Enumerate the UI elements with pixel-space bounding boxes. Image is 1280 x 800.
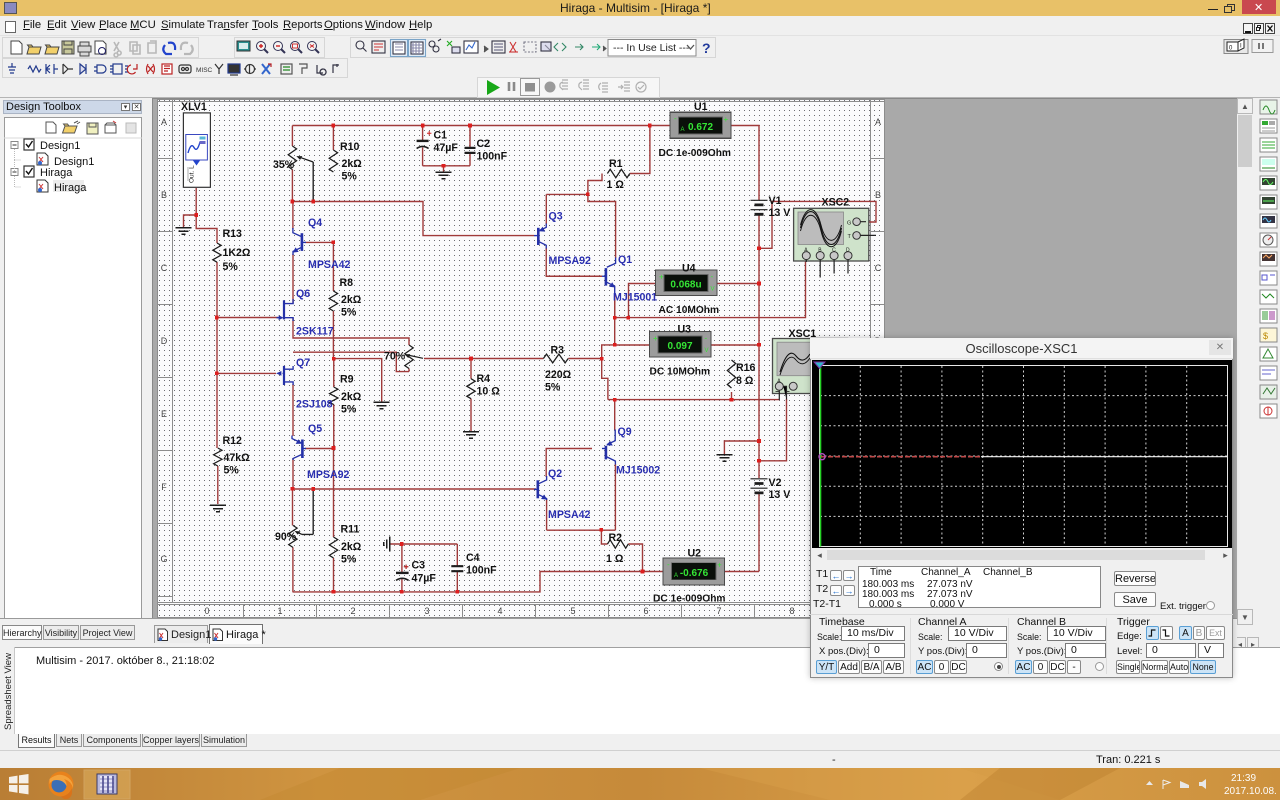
svg-text:+: + <box>724 115 729 124</box>
wire: Q6 gate <box>217 317 278 319</box>
potentiometer 70% <box>405 345 413 368</box>
wire: pot 35% wiper riser <box>312 162 314 202</box>
wire: pot 35% bottom lead <box>291 170 293 202</box>
svg-text:MPSA92: MPSA92 <box>549 255 591 267</box>
svg-text:Hiraga: Hiraga <box>40 167 73 179</box>
svg-text:MPSA92: MPSA92 <box>307 469 349 481</box>
svg-text:A: A <box>161 117 167 127</box>
svg-text:2kΩ: 2kΩ <box>341 391 362 403</box>
svg-text:47µF: 47µF <box>412 573 437 585</box>
svg-text:Out. L: Out. L <box>189 165 196 183</box>
wire: output node to XSC2 A <box>615 261 806 318</box>
ground below R4 <box>463 432 479 438</box>
svg-text:5%: 5% <box>224 465 240 477</box>
status bar <box>0 750 1280 768</box>
wire: ground spur at V2 <box>724 441 759 454</box>
svg-text:1 Ω: 1 Ω <box>607 179 625 191</box>
wire: XLV1 output <box>184 188 218 243</box>
svg-text:G: G <box>847 221 851 227</box>
svg-text:-: - <box>674 114 677 123</box>
wire: Q2 base rail <box>293 488 537 490</box>
capacitor C1 47uF <box>417 140 429 142</box>
resistor R3 220Ohm <box>543 354 568 363</box>
ground near V2 <box>716 455 732 461</box>
svg-text:0.672: 0.672 <box>688 122 713 133</box>
oscilloscope icon XSC1 <box>773 339 848 401</box>
svg-text:B: B <box>875 190 881 200</box>
svg-text:5%: 5% <box>342 171 358 183</box>
wire: R8 bottom lead <box>332 311 334 359</box>
svg-text:U2: U2 <box>688 548 702 560</box>
multimeter probe U4 <box>656 270 718 296</box>
ground mid feedback <box>374 402 390 408</box>
svg-text:Q5: Q5 <box>308 423 322 435</box>
wire: Q2 emitter lead <box>546 499 548 530</box>
svg-text:100nF: 100nF <box>477 151 508 163</box>
potentiometer wiper arrowheads <box>295 156 411 534</box>
resistor R2 1Ohm <box>608 540 629 548</box>
transistor Q6 2SK117 N-JFET <box>277 299 294 321</box>
transistor Q4 MPSA42 NPN <box>293 228 307 255</box>
svg-text:Q7: Q7 <box>296 357 310 369</box>
wire: Q4 collector riser <box>292 202 294 230</box>
transistor Q5 MPSA92 PNP <box>292 436 306 461</box>
svg-text:R4: R4 <box>477 373 491 385</box>
svg-text:13 V: 13 V <box>769 489 791 501</box>
wire: feedback rail <box>424 358 602 360</box>
wire: U2 right stub <box>725 571 760 573</box>
svg-text:R1: R1 <box>609 158 623 170</box>
svg-text:MJ15002: MJ15002 <box>616 465 660 477</box>
svg-text:R13: R13 <box>223 228 243 240</box>
transistor Q7 2SJ108 P-JFET <box>276 366 293 385</box>
resistor R12 47kOhm <box>214 448 222 466</box>
svg-text:R8: R8 <box>340 277 354 289</box>
svg-text:2SK117: 2SK117 <box>296 326 334 338</box>
svg-text:MJ15001: MJ15001 <box>613 292 657 304</box>
svg-text:U3: U3 <box>678 324 692 336</box>
resistor R9 2kOhm <box>330 387 338 405</box>
wire: C1 bottom lead <box>422 148 424 166</box>
resistor R11 2kOhm <box>329 537 337 558</box>
resistor R4 10Ohm <box>467 379 475 399</box>
wire: U3 left stub <box>615 344 650 346</box>
svg-text:R12: R12 <box>223 435 243 447</box>
svg-text:R3: R3 <box>551 345 565 357</box>
multimeter probe U2 <box>663 558 725 585</box>
svg-text:Q3: Q3 <box>549 211 563 223</box>
wire: R2 right to U2 <box>628 544 642 572</box>
svg-text:A: A <box>681 127 685 133</box>
svg-text:V1: V1 <box>769 195 782 207</box>
svg-text:7: 7 <box>716 606 721 616</box>
wire: C2 top lead <box>469 126 471 148</box>
svg-text:5%: 5% <box>223 261 239 273</box>
svg-text:MPSA42: MPSA42 <box>308 259 350 271</box>
wire: pot 90% bottom lead <box>292 547 294 592</box>
svg-text:-0.676: -0.676 <box>680 568 709 579</box>
svg-text:V2: V2 <box>769 477 782 489</box>
svg-text:R16: R16 <box>736 362 756 374</box>
transistor Q2 MPSA42 NPN <box>534 476 547 500</box>
wire: XSC1 A- return <box>759 399 787 461</box>
svg-text:13 V: 13 V <box>769 207 791 219</box>
multisim taskbar button <box>84 770 130 799</box>
oscilloscope window <box>810 338 1233 678</box>
svg-text:C3: C3 <box>412 560 426 572</box>
svg-text:G: G <box>160 554 167 564</box>
svg-text:U4: U4 <box>682 263 696 275</box>
wire: Q7 drain to pot 70% bottom <box>293 352 409 371</box>
capacitor C2 100nF <box>465 148 476 153</box>
svg-text:+: + <box>653 334 658 343</box>
wire: Q5 base <box>305 448 334 450</box>
design toolbox panel <box>2 98 142 625</box>
svg-text:100nF: 100nF <box>466 565 497 577</box>
transistor Q9 MJ15002 PNP <box>602 430 615 465</box>
wire: R13 to gates column <box>216 262 218 448</box>
toolbars <box>0 36 1280 98</box>
svg-text:XSC2: XSC2 <box>822 197 850 209</box>
svg-text:Design1: Design1 <box>40 140 80 152</box>
svg-text:2SJ108: 2SJ108 <box>296 399 333 411</box>
svg-text:AC 10MOhm: AC 10MOhm <box>659 305 720 316</box>
svg-text:R11: R11 <box>341 524 360 536</box>
wire: output rail to XSC1 <box>615 399 780 401</box>
wire: mid ground spur <box>334 359 382 402</box>
svg-text:D: D <box>161 336 168 346</box>
wire: pot R5 top lead <box>291 126 293 147</box>
svg-text:R2: R2 <box>609 532 623 544</box>
svg-text:A: A <box>875 117 881 127</box>
svg-text:C: C <box>161 263 168 273</box>
svg-text:U1: U1 <box>694 101 708 113</box>
window title bar <box>0 0 1280 16</box>
oscilloscope icon XSC2 <box>794 208 876 277</box>
svg-text:MISC: MISC <box>196 67 213 74</box>
svg-text:E: E <box>161 409 167 419</box>
main canvas <box>152 98 1237 625</box>
resistor R13 1K2Ohm <box>213 243 221 262</box>
transistor Q1 MJ15001 NPN <box>602 258 616 295</box>
wire: U3 right stub <box>711 344 759 346</box>
wire: V2 to U2 <box>758 493 760 572</box>
wire: Q3 emitter to R1 node <box>546 194 588 224</box>
schematic page background <box>153 99 1237 625</box>
wire: Q9 base link <box>546 449 592 478</box>
svg-text:47kΩ: 47kΩ <box>224 452 251 464</box>
svg-text:C1: C1 <box>434 130 448 142</box>
wire: Q3 collector to Q1 base <box>546 248 602 276</box>
multimeter probe U1 <box>670 112 731 138</box>
wire: R4 leads <box>470 359 472 432</box>
svg-text:0.097: 0.097 <box>667 341 692 352</box>
resistor R16 8Ohm speaker load <box>727 360 735 388</box>
wire: output to Q9 emitter <box>614 400 616 430</box>
svg-text:DC 1e-009Ohm: DC 1e-009Ohm <box>659 148 731 159</box>
svg-text:47µF: 47µF <box>434 142 459 154</box>
ground sideways at C3 <box>384 537 390 552</box>
wire: Q7 gate <box>217 372 276 374</box>
wire: ground spur at C3 <box>390 543 457 545</box>
capacitor C4 100nF <box>451 566 463 571</box>
svg-text:C: C <box>875 263 882 273</box>
svg-text:V: V <box>711 287 715 293</box>
svg-text:D: D <box>846 248 850 254</box>
wire: R1 right to top rail <box>630 126 650 174</box>
wire: pot 90% wiper <box>302 489 313 534</box>
capacitor C3 47uF <box>396 572 409 574</box>
resistor R8 2kOhm <box>329 291 337 311</box>
svg-text:70%: 70% <box>384 351 406 363</box>
wire: R9 leads <box>333 359 335 448</box>
ground below C1 C2 <box>436 172 452 178</box>
svg-text:R9: R9 <box>340 374 354 386</box>
wire: R1 node to Q1 collector <box>588 194 616 258</box>
svg-text:10 Ω: 10 Ω <box>477 386 501 398</box>
wire: Q4 base <box>305 241 333 243</box>
resistor R10 2kOhm <box>329 150 337 172</box>
svg-text:+: + <box>659 273 664 282</box>
svg-text:2017.10.08.: 2017.10.08. <box>1224 786 1277 797</box>
svg-text:2: 2 <box>350 606 355 616</box>
firefox icon <box>49 772 74 797</box>
ground below R12 <box>210 505 226 511</box>
wire: U4 right stub <box>717 283 759 285</box>
svg-text:C4: C4 <box>466 552 480 564</box>
sheet border frame <box>158 99 886 618</box>
svg-text:Q1: Q1 <box>618 254 632 266</box>
Hierarchy tabs of design toolbox <box>2 625 42 640</box>
wire: C1 top lead <box>422 126 424 141</box>
svg-text:MPSA42: MPSA42 <box>548 509 590 521</box>
svg-text:0.068u: 0.068u <box>670 280 701 291</box>
spreadsheet view <box>0 647 1280 734</box>
svg-text:21:39: 21:39 <box>1231 773 1256 784</box>
wire: Q6 source to pot 70% <box>293 318 409 345</box>
wire: C1/C2 ground link <box>423 166 470 172</box>
svg-text:$: $ <box>1263 331 1268 341</box>
wire: Q7 source to Q5 <box>292 384 294 436</box>
wire: right supply column <box>758 248 760 478</box>
transistor Q3 MPSA92 PNP <box>534 224 546 249</box>
wire: Q6 drain column <box>292 254 294 304</box>
svg-text:Q4: Q4 <box>308 217 322 229</box>
svg-text:90%: 90% <box>275 531 297 543</box>
resistor R1 1Ohm <box>607 169 629 177</box>
svg-text:Hiraga: Hiraga <box>54 182 87 194</box>
wire: U1 terminals <box>650 126 759 201</box>
svg-text:Q2: Q2 <box>548 468 562 480</box>
svg-text:DC 10MOhm: DC 10MOhm <box>650 367 711 378</box>
svg-text:-: - <box>705 334 708 343</box>
potentiometer R5 35% <box>288 146 296 169</box>
wire: R16 bottom lead <box>731 392 733 400</box>
svg-text:XLV1: XLV1 <box>181 101 207 113</box>
svg-text:5%: 5% <box>545 382 561 394</box>
wire: Q1 emitter to output <box>614 294 616 318</box>
svg-text:1: 1 <box>277 606 282 616</box>
instrument XLV1 (virtual probe) <box>183 113 210 187</box>
wire: U2 left stub <box>643 571 664 573</box>
svg-text:C: C <box>832 248 836 254</box>
svg-text:8 Ω: 8 Ω <box>736 375 754 387</box>
svg-text:5%: 5% <box>341 404 357 416</box>
svg-text:220Ω: 220Ω <box>545 369 572 381</box>
right scrollbar + instruments <box>1237 98 1253 625</box>
svg-text:8: 8 <box>789 606 794 616</box>
wire: +13V top rail <box>292 125 650 127</box>
battery V1 13V <box>751 200 768 209</box>
wire: R2 left drop <box>601 530 607 544</box>
svg-text:F: F <box>161 482 167 492</box>
wire: R1 left bend <box>588 174 602 195</box>
svg-text:6: 6 <box>643 606 648 616</box>
wire: C2 bottom lead <box>469 154 471 166</box>
wire: R10 top lead <box>332 126 334 151</box>
wire: V1 minus to node <box>758 216 760 249</box>
svg-text:C2: C2 <box>477 138 491 150</box>
svg-text:?: ? <box>702 40 711 56</box>
svg-text:R10: R10 <box>340 141 360 153</box>
svg-text:35%: 35% <box>273 159 295 171</box>
wire: V1 node to XSC2 G <box>759 201 876 248</box>
start button <box>9 776 18 784</box>
wire: output column <box>602 295 615 400</box>
multimeter probe U3 <box>650 332 712 358</box>
svg-text:-: - <box>667 560 670 569</box>
wire: negative bottom rail <box>293 572 643 592</box>
svg-text:2kΩ: 2kΩ <box>342 158 363 170</box>
svg-text:Q6: Q6 <box>296 288 310 300</box>
svg-text:5: 5 <box>570 606 575 616</box>
svg-text:--- In Use List ---: --- In Use List --- <box>613 42 690 54</box>
svg-text:2kΩ: 2kΩ <box>341 294 362 306</box>
potentiometer 90% <box>289 525 297 547</box>
wire: mid rail to Q3 base <box>292 202 534 236</box>
document tabs <box>0 618 1237 647</box>
svg-text:2kΩ: 2kΩ <box>341 541 362 553</box>
svg-text:5%: 5% <box>341 307 357 319</box>
svg-text:Q9: Q9 <box>618 426 632 438</box>
svg-text:-: - <box>711 272 714 281</box>
wire: R12 bottom lead <box>217 466 219 504</box>
svg-text:4: 4 <box>497 606 502 616</box>
svg-text:1 Ω: 1 Ω <box>606 553 624 565</box>
svg-text:B: B <box>161 190 167 200</box>
wire: U4 left stub <box>629 284 656 318</box>
svg-text:+: + <box>717 561 722 570</box>
menu bar <box>0 16 1280 36</box>
taskbar <box>0 768 1280 800</box>
wire: R8 top lead <box>332 242 334 291</box>
wire: Q2 emitter rail <box>547 464 616 530</box>
svg-text:DC 1e-009Ohm: DC 1e-009Ohm <box>653 594 725 605</box>
svg-text:3: 3 <box>424 606 429 616</box>
ground at XLV1 <box>176 228 192 234</box>
battery V2 13V <box>751 479 768 488</box>
wire: C3 leads <box>401 544 403 592</box>
svg-text:5%: 5% <box>341 554 357 566</box>
wire: R11 leads <box>333 448 335 592</box>
svg-text:0: 0 <box>204 606 209 616</box>
wire: Q5 collector drop <box>292 458 295 525</box>
svg-text:1K2Ω: 1K2Ω <box>223 247 251 259</box>
svg-text:V: V <box>705 348 709 354</box>
svg-text:A: A <box>674 573 678 579</box>
wire: C4 leads <box>456 544 458 592</box>
